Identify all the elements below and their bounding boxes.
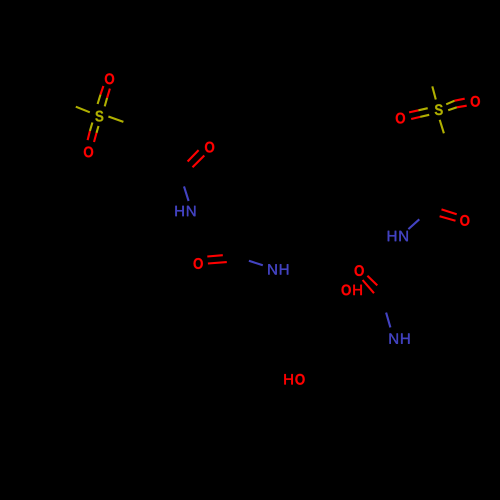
right amide 2: C=O bond lower line red half (363, 280, 374, 293)
left amide 1: HN label (175, 206, 195, 216)
left sulfone: S-CH3 bond olive half (76, 107, 90, 113)
left sulfone: S=O top bond line1 olive half (98, 95, 101, 105)
left amide 1: N-C bond blue half (184, 186, 189, 201)
right sulfone: S-CH3 bond olive half (432, 86, 436, 99)
left amide 1: C=O bond line1 red half (188, 150, 199, 161)
left sulfone: S=O top bond line2 olive half (105, 98, 107, 107)
left amide 2: carbonyl oxygen O label (194, 258, 203, 269)
left amide 1: C=O bond line2 red half (193, 156, 205, 168)
right amide 1: carbonyl oxygen O label (460, 215, 469, 226)
left sulfone: bottom oxygen O label (84, 146, 93, 157)
hydroxyl OH label (342, 284, 362, 295)
left sulfone: S-CH2 bond olive half (108, 117, 123, 122)
right amide 2: NH label (390, 333, 410, 343)
right sulfone: S=O right bond lower line olive half (448, 107, 457, 110)
right amide 2: N-C bond blue half (386, 313, 390, 328)
right sulfone: sulfur S label (435, 104, 443, 115)
right sulfone: S=O right bond lower line red half (457, 106, 467, 108)
right sulfone: S=O right bond upper line olive half (446, 101, 454, 105)
right amide 2: C=O bond upper line red half (367, 276, 377, 286)
right amide 2: carbonyl oxygen O label (355, 265, 364, 276)
right amide 1: C=O bond lower line red half (440, 216, 456, 221)
left amide 2: NH label (268, 264, 288, 274)
left sulfone: top oxygen O label (105, 73, 114, 84)
hydroxyl HO label (284, 374, 304, 385)
right sulfone: S=O left bond lower line olive half (420, 115, 429, 117)
right amide 1: HN label (388, 231, 408, 241)
left amide 2: C-N bond blue half (249, 261, 263, 266)
left sulfone: S=O bottom bond line2 red half (94, 133, 97, 142)
right amide 1: N-C bond blue half (408, 219, 419, 229)
right sulfone: right oxygen O label (471, 96, 480, 107)
right sulfone: left oxygen O label (396, 113, 405, 124)
left sulfone: sulfur S label (95, 111, 103, 122)
right sulfone: S=O left bond upper line olive half (418, 108, 427, 110)
left sulfone: S=O bottom bond line1 olive half (90, 123, 93, 132)
left amide 2: C=O bond lower line red half (208, 262, 227, 263)
left amide 2: C=O bond upper line red half (207, 255, 223, 256)
right sulfone: S=O right bond upper line red half (455, 99, 465, 101)
right sulfone: S=O left bond lower line red half (411, 117, 420, 119)
left amide 1: carbonyl oxygen O label (205, 142, 214, 153)
left sulfone: S=O bottom bond line2 olive half (97, 126, 99, 133)
left sulfone: S=O top bond line2 red half (107, 89, 110, 98)
left sulfone: S=O top bond line1 red half (101, 86, 104, 95)
right sulfone: S=O left bond upper line red half (409, 110, 418, 112)
right amide 1: C=O bond upper line red half (442, 209, 457, 214)
left sulfone: S=O bottom bond line1 red half (88, 131, 90, 140)
right sulfone: S-CH2 bond olive half (440, 120, 444, 134)
